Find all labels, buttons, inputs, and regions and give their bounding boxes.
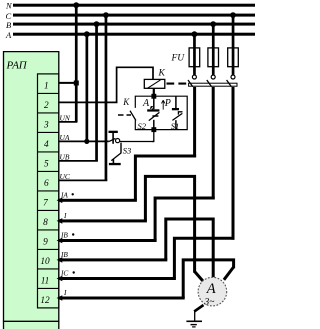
h6: phase C out elbow xyxy=(183,260,233,298)
terminal 3 wire UN xyxy=(59,113,77,122)
junction dot fuse A on bus A xyxy=(192,31,198,37)
svg-text:IB: IB xyxy=(60,250,68,259)
motor ground lead xyxy=(194,305,203,312)
w8 wire I xyxy=(57,211,147,224)
h1: phase A in elbow xyxy=(135,156,196,200)
contactor main contact pole A: terminal circle xyxy=(192,75,196,79)
svg-text:K: K xyxy=(122,97,130,107)
svg-text:4: 4 xyxy=(44,140,49,150)
junction dot A drop at terminal 4 wire xyxy=(84,139,89,144)
svg-text:A: A xyxy=(206,281,216,297)
bus B xyxy=(6,20,255,30)
junction dot on box bottom xyxy=(151,127,156,132)
wire: phase B drop (left) xyxy=(95,24,98,161)
svg-text:K: K xyxy=(158,68,166,78)
junction dot on box top xyxy=(151,94,156,99)
junction dot fuse B on bus B xyxy=(210,21,216,27)
wire: phase A drop (left) xyxy=(86,34,89,141)
coil K bottom lead xyxy=(153,88,155,96)
svg-text:1: 1 xyxy=(44,81,49,91)
svg-text:IA: IA xyxy=(60,190,68,199)
svg-text:S2: S2 xyxy=(138,121,147,131)
junction dot C drop on bus C xyxy=(103,12,109,18)
arrow near A xyxy=(150,106,153,111)
svg-text:I: I xyxy=(63,288,67,297)
pole C blade xyxy=(227,80,232,87)
svg-text:IB: IB xyxy=(60,231,68,240)
svg-text:P: P xyxy=(164,98,171,109)
button S2 (stop, NC) xyxy=(138,96,160,131)
motor lead left diagonal xyxy=(195,272,203,281)
label P with up arrow xyxy=(162,98,171,109)
wire: phase C drop (left) xyxy=(105,15,108,180)
aux contact K (on box left edge) xyxy=(118,97,136,121)
terminal 1 wire (to N) xyxy=(59,82,78,84)
fuse B xyxy=(208,24,219,75)
svg-text:6: 6 xyxy=(44,179,49,189)
junction dot N drop on bus N xyxy=(73,2,79,8)
bus C xyxy=(6,11,256,21)
switch S3 upper contact xyxy=(109,131,155,144)
motor lead right diagonal xyxy=(224,267,234,280)
svg-text:11: 11 xyxy=(41,276,50,286)
svg-text:S3: S3 xyxy=(123,146,132,156)
svg-text:IC: IC xyxy=(60,269,68,278)
h4: phase B out elbow xyxy=(166,219,213,277)
pole A blade xyxy=(188,80,193,87)
button S1 (start, NO) xyxy=(171,96,183,131)
wire: N drop (bus N to terminal 3) xyxy=(75,5,78,122)
svg-text:UC: UC xyxy=(60,172,71,181)
terminal 6 wire UC xyxy=(59,172,107,181)
h5: phase C in elbow xyxy=(174,238,234,278)
main drop phase B (switch to h3) xyxy=(212,87,215,200)
svg-text:FU: FU xyxy=(171,53,186,63)
svg-text:7: 7 xyxy=(43,198,48,208)
h3: phase B in elbow xyxy=(155,198,215,241)
svg-text:3: 3 xyxy=(43,120,49,130)
pole B blade xyxy=(207,80,212,87)
svg-text:A: A xyxy=(142,98,150,109)
svg-text:8: 8 xyxy=(43,218,48,228)
svg-text:A: A xyxy=(5,30,12,40)
terminal 5 wire UB xyxy=(59,152,98,161)
fuse A xyxy=(189,34,200,75)
svg-text:I: I xyxy=(63,211,67,220)
svg-text:9: 9 xyxy=(43,237,48,247)
button station box xyxy=(135,96,187,129)
wire S2 bottom to S3 xyxy=(152,130,154,142)
w10 wire IB xyxy=(57,250,168,263)
bus A xyxy=(5,30,255,40)
w12 wire I xyxy=(57,288,185,301)
main drop phase A (switch to h1) xyxy=(193,87,196,158)
svg-text:3~: 3~ xyxy=(204,297,215,307)
contactor main contact pole C: terminal circle xyxy=(231,75,235,79)
terminal 4 wire UA xyxy=(59,133,109,142)
coil K xyxy=(144,68,165,88)
svg-text:S1: S1 xyxy=(171,121,180,131)
w9 wire IB xyxy=(57,231,157,244)
motor M 3~ xyxy=(198,277,227,307)
svg-text:5: 5 xyxy=(44,159,49,169)
switch S3 lower actuator xyxy=(109,143,131,166)
svg-text:B: B xyxy=(6,20,11,30)
svg-text:РАП: РАП xyxy=(6,60,28,72)
svg-text:UA: UA xyxy=(60,133,70,142)
svg-text:UB: UB xyxy=(60,152,70,161)
svg-text:2: 2 xyxy=(44,101,49,111)
junction dot fuse C on bus C xyxy=(230,12,236,18)
contactor main contact pole B: terminal circle xyxy=(211,75,215,79)
junction dot A drop on bus A xyxy=(84,31,90,37)
junction dot N drop at terminal 1 wire xyxy=(74,81,79,86)
svg-text:12: 12 xyxy=(40,296,50,306)
control feed riser to coil xyxy=(117,67,153,102)
contact tie bar xyxy=(189,83,237,86)
mechanical link coil to main contacts (dashed) xyxy=(167,83,187,85)
terminal strip cells 1-12 xyxy=(37,74,59,308)
svg-text:UN: UN xyxy=(60,113,71,122)
ground xyxy=(186,310,202,327)
main drop phase C (switch to h5) xyxy=(232,87,235,240)
bus N xyxy=(5,0,255,10)
terminal 2 wire (control feed) xyxy=(59,101,118,103)
junction dot B drop on bus B xyxy=(94,21,100,27)
meter box PAP (green) xyxy=(3,51,59,329)
fuse C xyxy=(228,15,239,75)
w11 wire IC xyxy=(57,269,176,282)
svg-text:10: 10 xyxy=(40,257,50,267)
w7 wire IA xyxy=(57,190,137,203)
h2: phase A out elbow xyxy=(145,176,194,272)
